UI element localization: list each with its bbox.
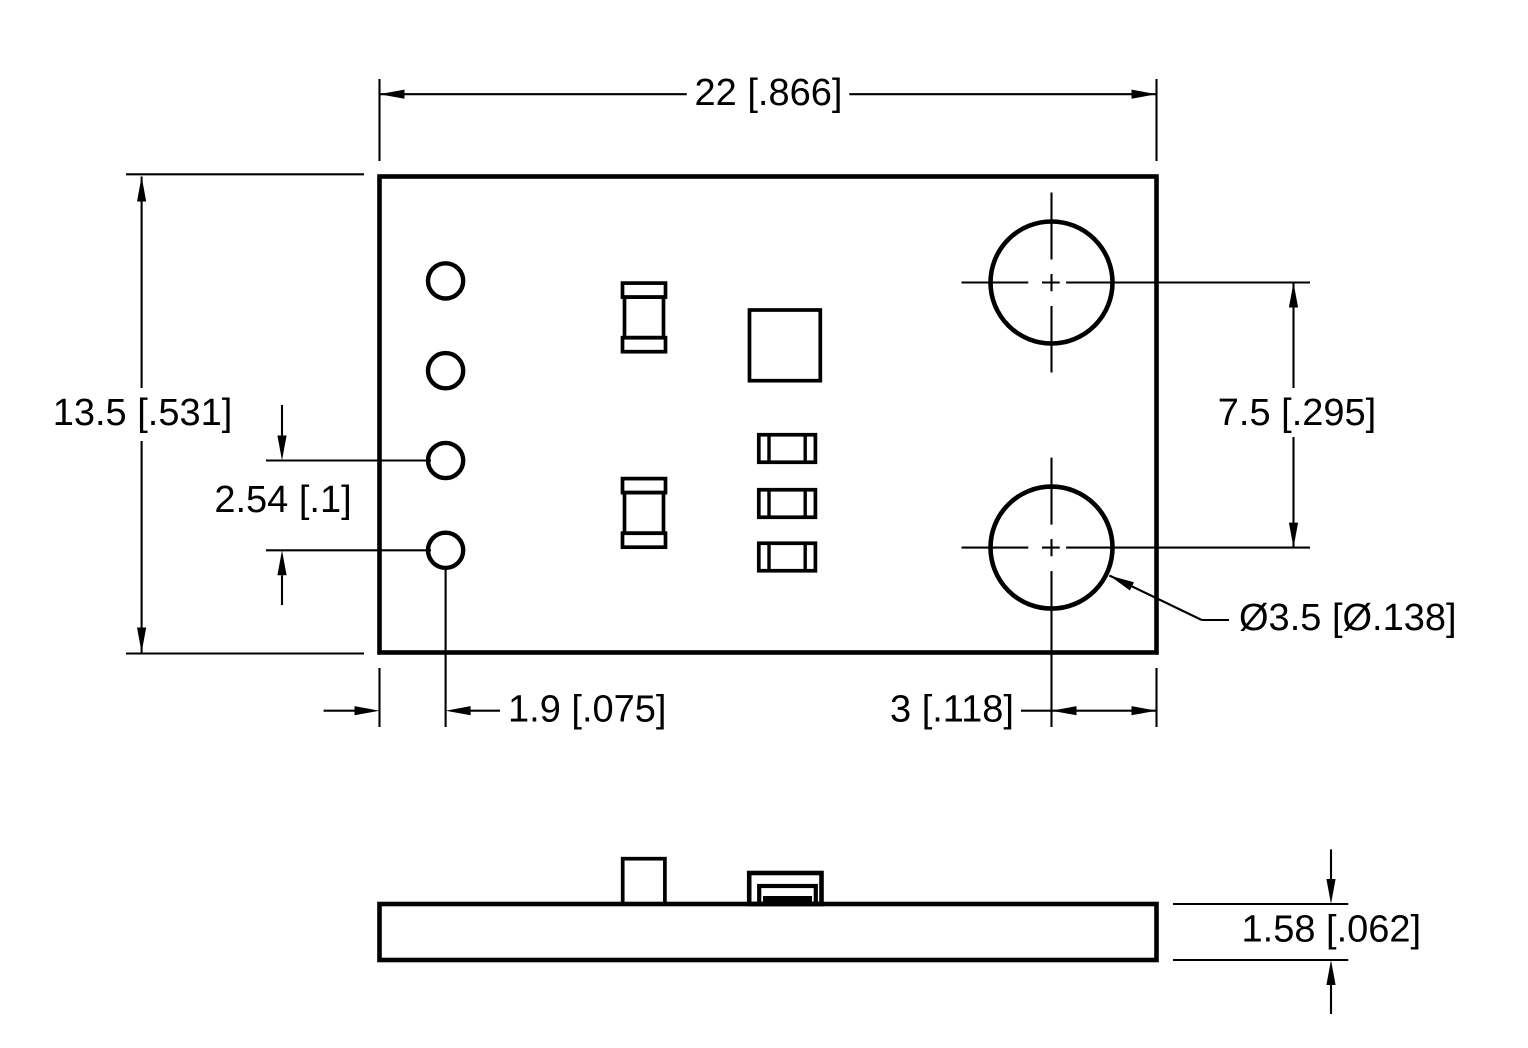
svg-text:13.5 [.531]: 13.5 [.531] xyxy=(53,392,233,434)
svg-text:2.54 [.1]: 2.54 [.1] xyxy=(214,479,351,521)
svg-text:1.9 [.075]: 1.9 [.075] xyxy=(508,689,666,731)
svg-text:3 [.118]: 3 [.118] xyxy=(890,689,1014,731)
svg-text:22 [.866]: 22 [.866] xyxy=(695,72,843,114)
svg-text:7.5 [.295]: 7.5 [.295] xyxy=(1218,392,1376,434)
svg-text:1.58 [.062]: 1.58 [.062] xyxy=(1242,909,1422,951)
svg-text:Ø3.5 [Ø.138]: Ø3.5 [Ø.138] xyxy=(1239,597,1457,639)
